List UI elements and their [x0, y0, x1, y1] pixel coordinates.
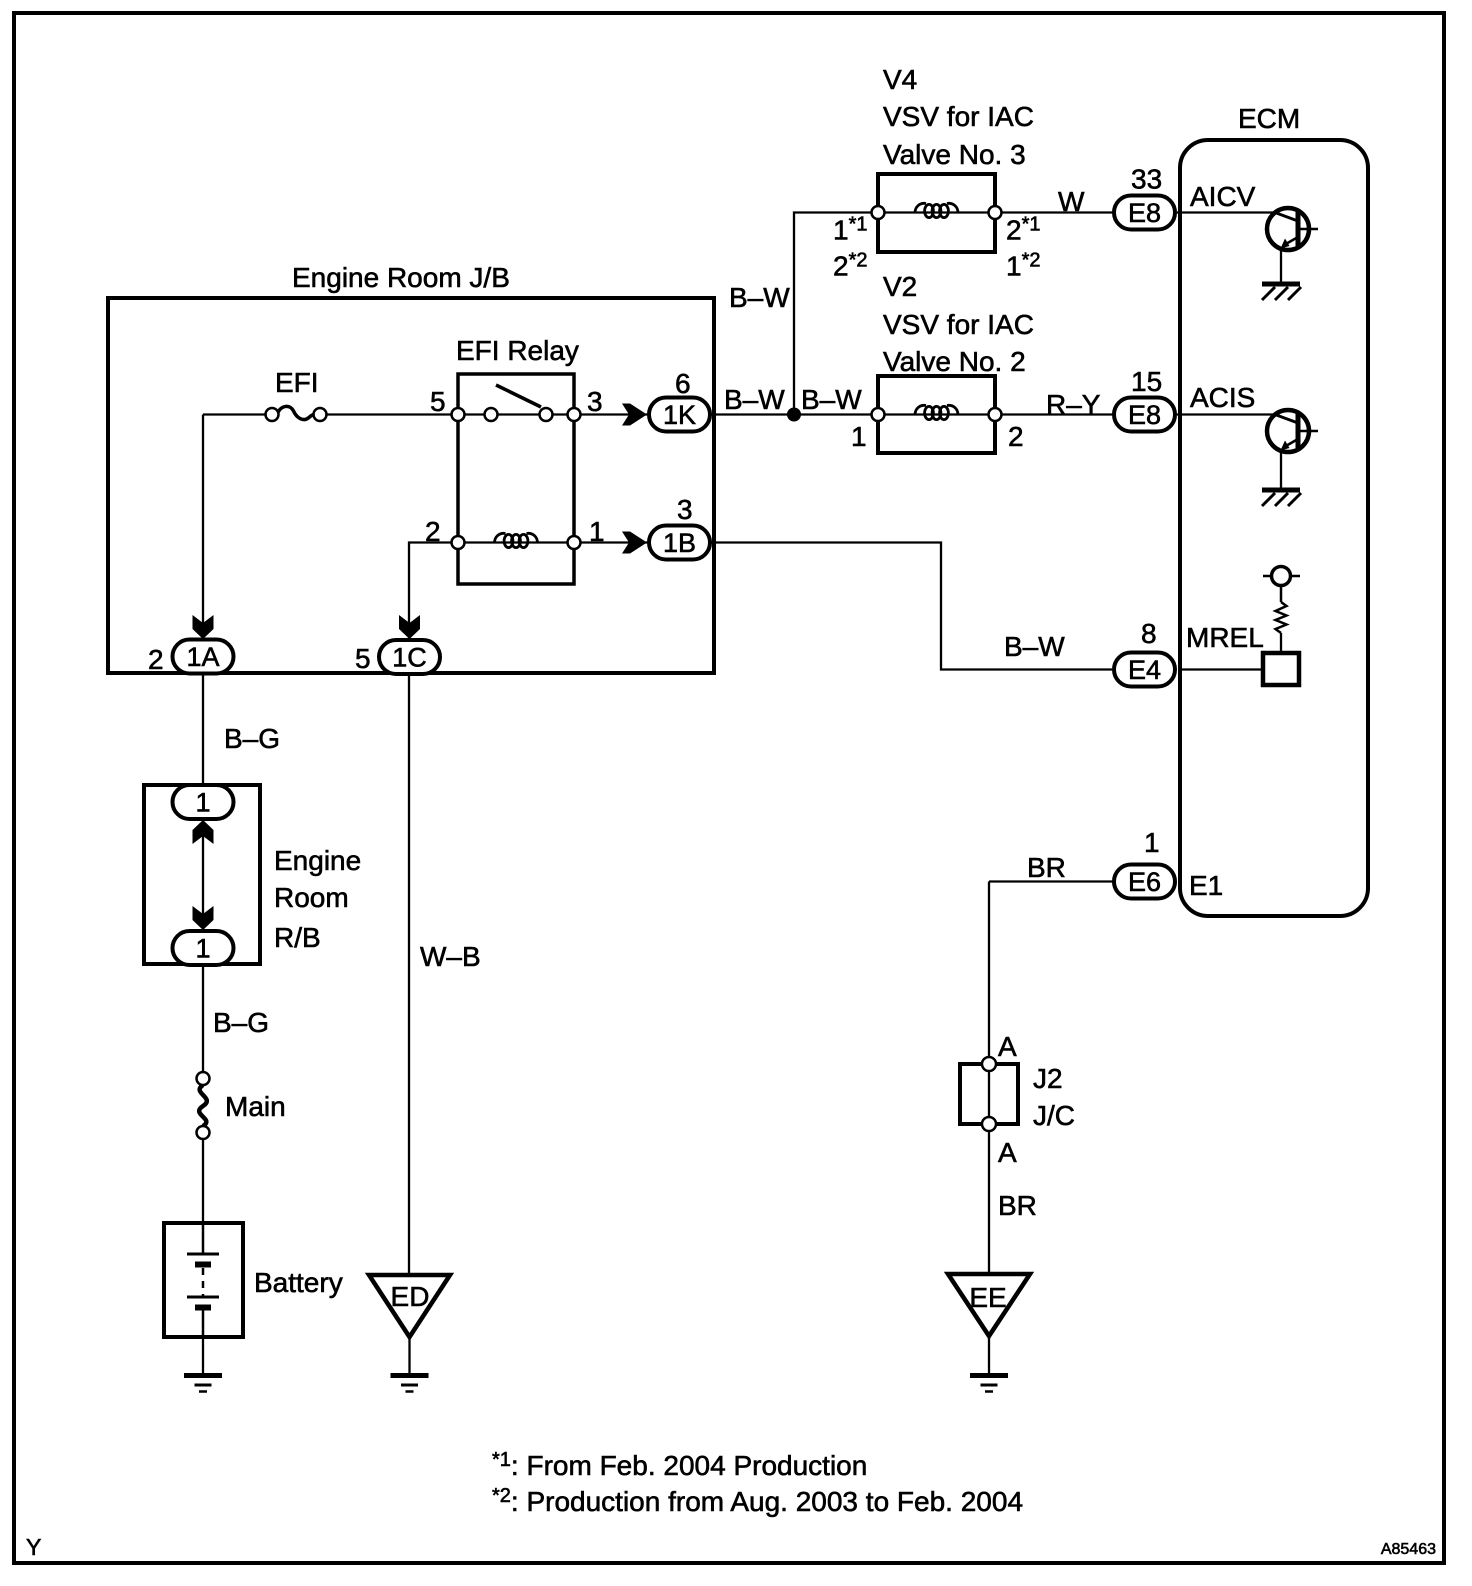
- svg-text:EFI Relay: EFI Relay: [456, 335, 579, 366]
- svg-text:15: 15: [1131, 366, 1162, 397]
- svg-text:B–W: B–W: [801, 384, 862, 415]
- svg-text:V2: V2: [883, 271, 917, 302]
- svg-text:V4: V4: [883, 64, 917, 95]
- svg-text:R/B: R/B: [274, 922, 321, 953]
- svg-text:E4: E4: [1128, 655, 1161, 685]
- svg-text:J2: J2: [1033, 1063, 1063, 1094]
- svg-text:Battery: Battery: [254, 1267, 343, 1298]
- svg-text:Room: Room: [274, 882, 349, 913]
- svg-text:EE: EE: [969, 1282, 1006, 1313]
- svg-text:VSV for IAC: VSV for IAC: [883, 101, 1034, 132]
- svg-text:R–Y: R–Y: [1046, 389, 1101, 420]
- svg-text:ECM: ECM: [1238, 103, 1300, 134]
- svg-text:5: 5: [430, 386, 446, 417]
- svg-text:1A: 1A: [186, 642, 219, 672]
- svg-text:2: 2: [425, 516, 441, 547]
- svg-text:Engine Room J/B: Engine Room J/B: [292, 262, 510, 293]
- svg-text:1: 1: [195, 934, 210, 964]
- svg-text:6: 6: [675, 368, 691, 399]
- svg-text:J/C: J/C: [1033, 1100, 1075, 1131]
- svg-text:1K: 1K: [663, 400, 696, 430]
- svg-text:Y: Y: [26, 1534, 41, 1560]
- svg-text:B–G: B–G: [224, 723, 280, 754]
- svg-text:EFI: EFI: [275, 367, 319, 398]
- svg-text:2*2: 2*2: [833, 250, 867, 282]
- svg-text:8: 8: [1141, 618, 1157, 649]
- svg-text:1C: 1C: [392, 643, 427, 673]
- svg-text:1B: 1B: [663, 528, 696, 558]
- svg-text:E8: E8: [1128, 400, 1161, 430]
- svg-text:ED: ED: [391, 1281, 430, 1312]
- svg-text:E6: E6: [1128, 867, 1161, 897]
- svg-text:BR: BR: [998, 1190, 1037, 1221]
- svg-text:5: 5: [355, 643, 371, 674]
- svg-text:E1: E1: [1189, 870, 1223, 901]
- svg-text:A: A: [998, 1137, 1017, 1168]
- svg-text:3: 3: [587, 386, 603, 417]
- svg-text:B–W: B–W: [724, 384, 785, 415]
- svg-text:Main: Main: [225, 1091, 286, 1122]
- svg-text:2: 2: [148, 644, 164, 675]
- svg-text:1*1: 1*1: [833, 214, 867, 246]
- svg-text:2: 2: [1008, 421, 1024, 452]
- svg-text:VSV for IAC: VSV for IAC: [883, 309, 1034, 340]
- svg-text:B–W: B–W: [1004, 631, 1065, 662]
- svg-text:Engine: Engine: [274, 845, 361, 876]
- svg-text:A85463: A85463: [1381, 1541, 1436, 1558]
- svg-text:Valve No. 2: Valve No. 2: [883, 346, 1026, 377]
- svg-text:*2: Production from Aug. 2003: *2: Production from Aug. 2003 to Feb. 20…: [492, 1485, 1023, 1517]
- svg-text:1: 1: [195, 788, 210, 818]
- svg-text:2*1: 2*1: [1006, 214, 1040, 246]
- svg-text:Valve No. 3: Valve No. 3: [883, 139, 1026, 170]
- svg-text:1*2: 1*2: [1006, 250, 1040, 282]
- svg-text:B–G: B–G: [213, 1007, 269, 1038]
- svg-text:A: A: [998, 1031, 1017, 1062]
- svg-text:MREL: MREL: [1186, 622, 1264, 653]
- svg-text:E8: E8: [1128, 198, 1161, 228]
- svg-text:*1: From Feb. 2004 Production: *1: From Feb. 2004 Production: [492, 1449, 867, 1481]
- svg-text:1: 1: [851, 421, 867, 452]
- svg-text:3: 3: [677, 494, 693, 525]
- svg-text:1: 1: [589, 516, 605, 547]
- svg-text:ACIS: ACIS: [1190, 382, 1255, 413]
- svg-text:33: 33: [1131, 164, 1162, 195]
- svg-text:W–B: W–B: [420, 941, 481, 972]
- svg-text:B–W: B–W: [729, 282, 790, 313]
- svg-text:W: W: [1058, 186, 1085, 217]
- svg-text:1: 1: [1144, 827, 1160, 858]
- svg-text:BR: BR: [1027, 852, 1066, 883]
- svg-text:AICV: AICV: [1190, 181, 1256, 212]
